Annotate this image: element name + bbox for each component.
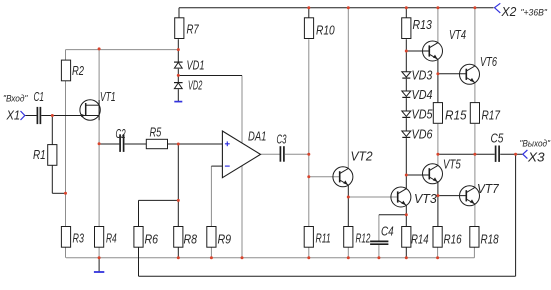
svg-text:R5: R5 bbox=[150, 126, 162, 140]
svg-text:R1: R1 bbox=[33, 148, 46, 162]
svg-text:R10: R10 bbox=[316, 24, 335, 38]
svg-text:C3: C3 bbox=[277, 133, 287, 147]
svg-text:"+36В": "+36В" bbox=[521, 7, 548, 17]
svg-text:C2: C2 bbox=[116, 127, 126, 141]
svg-text:C4: C4 bbox=[381, 225, 394, 239]
svg-text:R17: R17 bbox=[482, 109, 501, 123]
svg-text:VD5: VD5 bbox=[412, 108, 433, 122]
svg-text:VT5: VT5 bbox=[443, 158, 461, 172]
svg-text:R13: R13 bbox=[413, 18, 432, 32]
svg-text:X2: X2 bbox=[501, 4, 517, 19]
svg-text:R7: R7 bbox=[187, 23, 200, 37]
svg-text:C1: C1 bbox=[34, 90, 45, 104]
svg-text:C5: C5 bbox=[491, 132, 504, 146]
svg-text:VT3: VT3 bbox=[414, 192, 437, 206]
svg-text:R9: R9 bbox=[218, 233, 232, 247]
svg-text:"Выход": "Выход" bbox=[520, 139, 551, 149]
svg-text:X3: X3 bbox=[527, 150, 545, 165]
svg-text:X1: X1 bbox=[6, 108, 20, 123]
svg-text:DA1: DA1 bbox=[248, 130, 266, 144]
svg-text:R18: R18 bbox=[481, 233, 499, 247]
svg-text:VD4: VD4 bbox=[412, 88, 433, 102]
svg-text:VT7: VT7 bbox=[477, 182, 500, 196]
svg-text:VT1: VT1 bbox=[100, 90, 116, 104]
svg-text:R11: R11 bbox=[316, 232, 331, 246]
svg-text:VT2: VT2 bbox=[351, 150, 373, 164]
svg-text:R15: R15 bbox=[445, 109, 467, 123]
svg-text:R16: R16 bbox=[444, 233, 462, 247]
svg-text:R2: R2 bbox=[72, 64, 84, 78]
svg-text:R14: R14 bbox=[411, 233, 429, 247]
svg-text:VD1: VD1 bbox=[187, 59, 205, 73]
svg-text:"Вход": "Вход" bbox=[3, 93, 28, 103]
svg-text:R12: R12 bbox=[356, 232, 371, 246]
svg-text:R6: R6 bbox=[145, 233, 159, 247]
svg-text:VT4: VT4 bbox=[449, 28, 466, 42]
svg-text:VT6: VT6 bbox=[480, 55, 497, 69]
svg-text:R8: R8 bbox=[184, 233, 198, 247]
svg-text:VD3: VD3 bbox=[412, 69, 433, 83]
svg-text:R4: R4 bbox=[106, 232, 117, 246]
svg-text:R3: R3 bbox=[73, 232, 84, 246]
svg-text:VD6: VD6 bbox=[412, 128, 433, 142]
svg-text:VD2: VD2 bbox=[188, 78, 202, 92]
